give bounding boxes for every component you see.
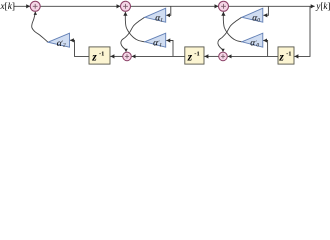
svg-text:z: z — [187, 51, 193, 63]
svg-text:y[k]: y[k] — [315, 1, 330, 11]
svg-text:z: z — [91, 51, 97, 63]
svg-text:-1: -1 — [286, 51, 291, 58]
svg-text:-1: -1 — [194, 51, 199, 58]
svg-text:x[k]: x[k] — [0, 2, 15, 12]
svg-text:-1: -1 — [99, 51, 104, 58]
svg-text:z: z — [278, 51, 284, 63]
